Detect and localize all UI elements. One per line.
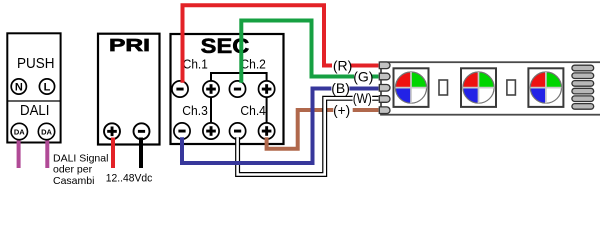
terminal SEC Ch3 - — [174, 123, 190, 139]
terminal SEC Ch4 + — [259, 123, 275, 139]
svg-text:(G): (G) — [353, 69, 373, 85]
solder pad + (left) — [379, 107, 390, 114]
svg-text:Ch.1: Ch.1 — [183, 56, 208, 71]
PRI box (power supply primary) — [98, 34, 160, 145]
terminal SEC Ch2 - — [229, 81, 245, 97]
divider — [7, 100, 60, 102]
svg-text:DALI Signal: DALI Signal — [53, 152, 108, 164]
wire Ch3- to strip (B) (blue) — [182, 89, 379, 164]
wire Ch4+ to strip (+) (brown) — [267, 110, 379, 149]
svg-text:Ch.3: Ch.3 — [182, 103, 208, 118]
plus bus wiring inside SEC — [211, 73, 267, 123]
svg-text:Ch.4: Ch.4 — [240, 103, 266, 118]
LED module D2 — [461, 68, 496, 107]
solder pad G (left) — [379, 73, 390, 80]
terminal SEC Ch2 + — [259, 81, 275, 97]
svg-text:(R): (R) — [333, 57, 352, 73]
SEC box (power supply secondary) — [171, 34, 284, 144]
DALI dimmer box U1 — [7, 33, 60, 142]
terminal SEC Ch3 + — [203, 123, 219, 139]
svg-text:L: L — [44, 82, 51, 94]
node label (W) — [353, 90, 373, 106]
terminal PRI + — [104, 123, 120, 139]
svg-text:N: N — [15, 82, 23, 94]
solder pad 4 (right end) — [572, 88, 594, 94]
resistor R2 on strip — [507, 80, 516, 95]
LED module D1 — [394, 68, 429, 107]
terminal L — [39, 79, 54, 94]
wire Ch1- to strip (R) (red) — [183, 5, 379, 83]
LED strip body — [381, 62, 600, 114]
svg-text:(+): (+) — [333, 102, 350, 118]
terminal DA1 — [11, 123, 27, 139]
svg-text:(B): (B) — [331, 80, 350, 96]
svg-text:DA: DA — [41, 127, 52, 136]
svg-text:12..48Vdc: 12..48Vdc — [106, 173, 153, 185]
svg-text:Ch.2: Ch.2 — [240, 56, 266, 71]
node label (G) — [353, 69, 373, 85]
svg-text:DALI: DALI — [20, 103, 50, 119]
svg-text:Casambi: Casambi — [53, 175, 94, 187]
svg-text:(W): (W) — [353, 90, 372, 106]
solder pad W (left) — [379, 96, 390, 103]
solder pad R (left) — [379, 62, 390, 69]
svg-text:PUSH: PUSH — [17, 56, 55, 72]
node label (+) — [333, 102, 353, 118]
terminal SEC Ch1 + — [203, 81, 219, 97]
terminal N — [11, 79, 26, 94]
LED module D3 — [528, 68, 563, 107]
node label (R) — [332, 57, 352, 73]
wire DALI DA2 (pink) — [45, 139, 49, 168]
solder pad 5 (right end) — [572, 96, 594, 102]
svg-text:DA: DA — [14, 127, 25, 136]
svg-text:oder per: oder per — [53, 164, 93, 176]
solder pad B (left) — [379, 85, 390, 92]
terminal SEC Ch4 - — [230, 123, 246, 139]
solder pad 2 (right end) — [572, 73, 594, 79]
resistor R1 on strip — [439, 80, 448, 95]
node label (B) — [331, 80, 350, 96]
wire -V (black) from PRI - — [139, 138, 143, 169]
terminal PRI - — [134, 123, 150, 139]
svg-text:PRI: PRI — [109, 35, 150, 55]
wire Ch4- to strip (W) (white, outlined) — [238, 98, 379, 174]
terminal DA2 — [38, 123, 54, 139]
terminal SEC Ch1 - — [172, 81, 188, 97]
wire +V (red) from PRI + — [111, 138, 115, 169]
solder pad 6 (right end) — [572, 104, 594, 110]
solder pad 3 (right end) — [572, 81, 594, 87]
solder pad 1 (right end) — [572, 65, 594, 71]
wire DALI DA1 (pink) — [17, 139, 21, 168]
note DALI Signal oder per Casambi — [53, 152, 108, 187]
wire Ch2- to strip (G) (green) — [241, 21, 378, 83]
